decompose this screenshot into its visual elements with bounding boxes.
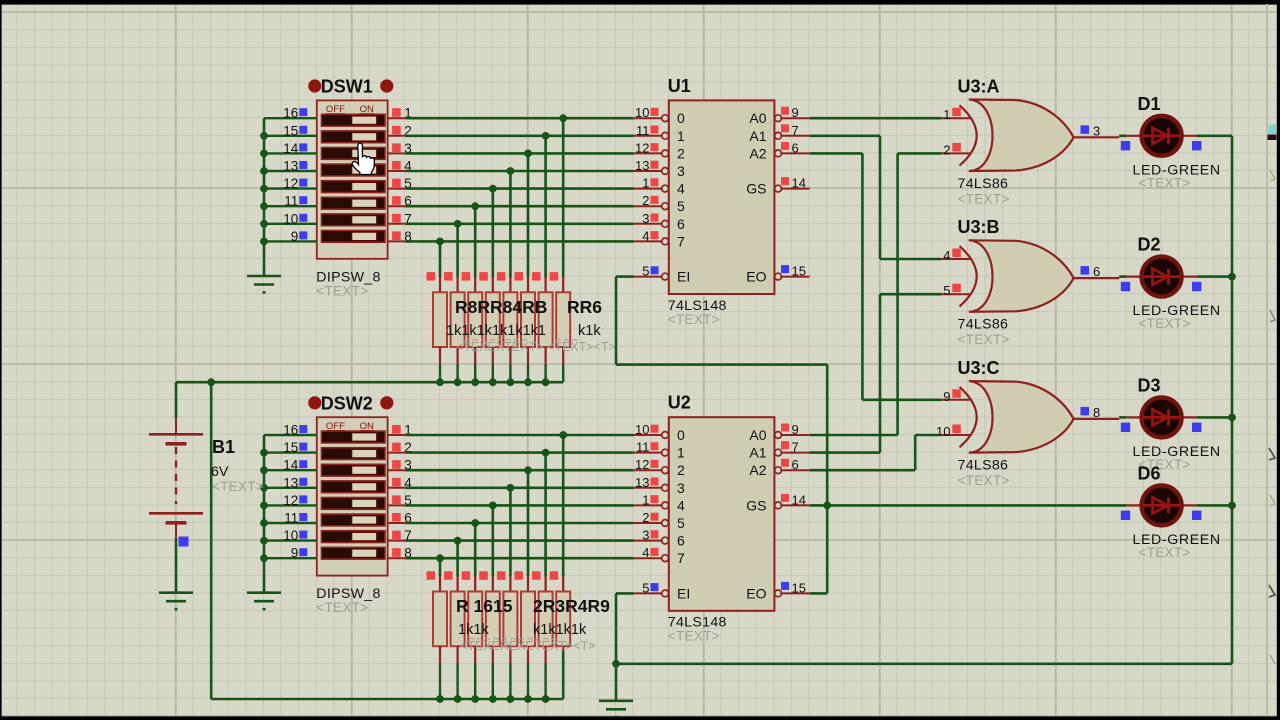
DSW2 title dot left <box>308 396 321 409</box>
DSW1 left pin 9 <box>264 229 317 244</box>
U2 EI pin 5 <box>634 580 691 601</box>
DSW2 right pin 8 <box>388 546 412 561</box>
wire left vertical V+ <box>210 382 213 699</box>
LED D2 <box>1121 257 1202 297</box>
wire DSW2 left bus <box>263 435 266 593</box>
wire EI vertical <box>615 277 618 365</box>
node tap row 3 <box>524 150 532 158</box>
junction R11 bottom <box>471 695 479 703</box>
U1 output pin GS (pin 14) <box>746 176 809 197</box>
U1 EI pin 5 <box>634 264 691 285</box>
resistor R5 <box>497 272 518 382</box>
svg-text:4: 4 <box>642 228 649 243</box>
svg-text:<T͆E͆X͆E͆R͆E͆X͆E͆T͆E͆X͆T><T>: <T͆E͆X͆E͆R͆E͆X͆E͆T͆E͆X͆T><T> <box>460 638 595 653</box>
resistor R4 <box>479 272 500 382</box>
wire tap down to R1 <box>439 241 442 277</box>
wire tap down to bank2 resistor <box>544 453 547 577</box>
U1 input pin 2 (pin 12) <box>634 140 685 161</box>
wire cascade vertical to GS node <box>826 365 829 506</box>
U3:A input 1 label <box>943 107 961 122</box>
svg-text:11: 11 <box>636 440 650 455</box>
wire DSW2 pin7 to U2 input 6 <box>405 539 633 542</box>
LED D3 <box>1121 397 1202 437</box>
U1 output pin A2 (pin 6) <box>749 140 809 161</box>
U1 output pin A0 (pin 9) <box>749 105 809 126</box>
video letterbox top <box>0 0 1280 5</box>
resistor R11 <box>462 571 483 699</box>
DIP switch DSW1 body <box>317 100 388 258</box>
DSW1 left pin 14 <box>264 141 317 156</box>
junction D2 cathode <box>1228 273 1236 281</box>
wire DSW1 pin4 to U1 input 3 <box>405 170 633 173</box>
DSW2 left pin 15 <box>264 440 317 455</box>
svg-text:4: 4 <box>943 248 950 263</box>
svg-text:6: 6 <box>792 457 799 472</box>
svg-text:12: 12 <box>635 140 649 155</box>
wire DSW1 pin8 to U1 input 7 <box>405 240 633 243</box>
svg-text:6V: 6V <box>211 464 229 480</box>
svg-text:6: 6 <box>677 533 685 549</box>
encoder U1 74LS148 body <box>669 100 775 294</box>
svg-text:1k1k: 1k1k <box>458 622 489 638</box>
svg-text:2: 2 <box>642 510 649 525</box>
wire D3 cathode to rail <box>1197 416 1232 419</box>
U1 input pin 1 (pin 11) <box>634 123 685 144</box>
junction EI ground node <box>612 660 620 668</box>
video letterbox bottom <box>0 716 1280 720</box>
svg-text:GS: GS <box>746 181 766 197</box>
svg-text:6: 6 <box>677 216 685 232</box>
U2 output pin A0 (pin 9) <box>749 422 809 443</box>
wire DSW1 pin5 to U1 input 4 <box>405 187 633 190</box>
svg-text:GS: GS <box>746 497 766 513</box>
resistor bank2 labels R9-R16 <box>456 596 610 616</box>
wire tap down to R3 <box>474 206 477 277</box>
DSW1 left pin 11 <box>264 194 317 209</box>
svg-text:EO: EO <box>746 269 766 285</box>
ground U2.EI <box>599 701 633 718</box>
svg-text:D3: D3 <box>1138 375 1161 395</box>
XOR gate U3:A body <box>969 100 1074 172</box>
XOR gate U3:C body <box>969 381 1074 453</box>
DSW1 right pin 4 <box>388 159 413 174</box>
node tap row 5 <box>489 185 497 193</box>
wire DSW2 pin6 to U2 input 5 <box>405 522 633 525</box>
svg-text:3: 3 <box>677 480 685 496</box>
svg-text:14: 14 <box>283 458 299 473</box>
svg-text:7: 7 <box>792 123 799 138</box>
node tap2 row 1 <box>559 431 567 439</box>
DSW1 switch 4 slot <box>322 164 386 176</box>
svg-text:2R3R4R9: 2R3R4R9 <box>533 596 610 616</box>
wire tap down to R4 <box>491 189 494 278</box>
DSW1 right pin 3 <box>388 141 412 156</box>
DSW2 switch 3 slot <box>322 464 386 476</box>
junction DSW2 bus row 2 <box>260 449 268 457</box>
U1 input pin 3 (pin 13) <box>634 158 685 179</box>
junction DSW2 bus row 4 <box>260 484 268 492</box>
svg-text:3: 3 <box>1093 123 1100 138</box>
svg-text:<TEXT>: <TEXT> <box>1139 545 1191 560</box>
wire U1.A0 to U3:A.1 <box>810 117 942 120</box>
svg-text:5: 5 <box>943 283 950 298</box>
wire U2.A2 to U3:C.10 <box>915 434 941 437</box>
wire tap down to bank2 resistor <box>562 435 565 576</box>
XOR gate U3:B input stubs <box>942 259 971 294</box>
svg-text:10: 10 <box>283 211 298 226</box>
U2 output pin GS (pin 14) <box>746 492 809 513</box>
U3:C output 8 label <box>1081 405 1101 420</box>
svg-text:9: 9 <box>792 422 799 437</box>
junction DSW1 bus row 2 <box>260 132 268 140</box>
wire tap down to bank2 resistor <box>509 488 512 577</box>
DSW2 switch 8 slot <box>322 547 386 559</box>
svg-text:1: 1 <box>943 107 950 122</box>
svg-text:5: 5 <box>642 264 649 279</box>
wire D2 cathode to rail <box>1197 275 1232 278</box>
svg-text:<TEXT>: <TEXT> <box>212 479 264 494</box>
svg-text:4: 4 <box>677 497 685 513</box>
node tap row 1 <box>559 114 567 122</box>
node tap row 4 <box>507 167 515 175</box>
wire DSW2 pin2 to U2 input 1 <box>405 451 633 454</box>
svg-text:EI: EI <box>677 585 690 601</box>
DSW1 switch 1 slot <box>322 114 386 126</box>
wire U1.EI stub <box>616 275 634 278</box>
wire bus to battery + <box>175 382 178 418</box>
junction R13 bottom <box>507 695 515 703</box>
wire DSW1 pin3 to U1 input 2 <box>405 152 633 155</box>
svg-text:7: 7 <box>677 233 685 249</box>
U2 input pin 2 (pin 12) <box>634 457 685 478</box>
ground DSW1 <box>247 276 281 293</box>
node tap2 row 5 <box>489 502 497 510</box>
wire bank2 R16 bottom riser <box>562 652 565 699</box>
wire cathode rail vertical <box>1231 136 1234 664</box>
svg-text:13: 13 <box>635 475 649 490</box>
wire U1.A2 vertical <box>861 153 864 399</box>
wire DSW2 pin1 to U2 input 0 <box>405 434 633 437</box>
U1 input pin 6 (pin 3) <box>634 211 685 232</box>
junction DSW1 bus row 4 <box>260 167 268 175</box>
wire DSW1 pin6 to U1 input 5 <box>405 205 633 208</box>
wire U2.A0 horizontal <box>810 434 898 437</box>
junction DSW1 bus row 6 <box>260 202 268 210</box>
svg-text:6: 6 <box>792 140 799 155</box>
svg-text:U3:A: U3:A <box>958 76 1000 96</box>
svg-text:11: 11 <box>284 511 298 526</box>
wire DSW2 pin8 to U2 input 7 <box>405 557 633 560</box>
U3:A output 3 label <box>1081 123 1101 138</box>
wire tap down to bank2 resistor <box>491 505 494 576</box>
junction DSW1 bus row 8 <box>260 238 268 246</box>
svg-text:<TEXT>: <TEXT> <box>668 629 720 644</box>
DSW1 left pin 12 <box>264 176 317 191</box>
U1 input pin 0 (pin 10) <box>634 105 685 126</box>
wire U1.A2 horizontal <box>810 152 863 155</box>
wire ground bus to LED cathode rail <box>616 662 1232 665</box>
wire tap down to R8 <box>562 118 565 277</box>
junction DSW2 bus row 7 <box>260 537 268 545</box>
U3:C input 10 label <box>936 424 961 439</box>
DSW1 left pin 10 <box>264 211 317 226</box>
svg-text:9: 9 <box>943 389 950 404</box>
XOR gate U3:B front arc <box>960 246 977 306</box>
svg-text:<TEXT>: <TEXT> <box>316 283 368 298</box>
DSW1 right pin 1 <box>388 106 412 121</box>
U2 output pin EO (pin 15) <box>746 580 809 601</box>
svg-text:<TEXT>: <TEXT> <box>958 473 1010 488</box>
svg-text:<T͆E͆X͆E͆X͆T͆E͆X͆T> <T͆E͆X͆T><: <T͆E͆X͆E͆X͆T͆E͆X͆T> <T͆E͆X͆T><T> <box>456 339 616 354</box>
wire DSW1 pin1 to U1 input 0 <box>405 117 633 120</box>
DSW1 title dot right <box>380 79 393 92</box>
DSW2 right pin 1 <box>388 423 412 438</box>
resistor bank1 labels R1-R8 <box>455 297 602 317</box>
svg-text:14: 14 <box>792 176 806 191</box>
junction R6 bottom <box>524 378 532 386</box>
svg-text:11: 11 <box>636 123 650 138</box>
svg-text:U1: U1 <box>668 76 691 96</box>
svg-text:R 1615: R 1615 <box>456 596 513 616</box>
XOR gate U3:B output stub <box>1074 277 1120 279</box>
LED D1 <box>1121 116 1202 156</box>
svg-text:5: 5 <box>642 580 649 595</box>
node tap2 row 3 <box>524 466 532 474</box>
wire DSW1 left bus <box>263 118 266 276</box>
svg-text:2: 2 <box>677 462 685 478</box>
junction DSW1 bus row 3 <box>260 150 268 158</box>
junction R9 bottom <box>436 695 444 703</box>
svg-text:DSW1: DSW1 <box>321 77 373 97</box>
svg-text:<TEXT>: <TEXT> <box>668 312 720 327</box>
video edge left <box>0 0 2 720</box>
DSW1 switch 7 slot <box>322 214 386 226</box>
wire V+ bus lower <box>211 698 563 701</box>
resistor R12 <box>479 571 500 699</box>
wire U2.A1 horizontal <box>810 451 880 454</box>
svg-text:0: 0 <box>677 427 685 443</box>
svg-text:3: 3 <box>642 211 649 226</box>
wire U1.A2 to U3:C.9 <box>862 398 941 401</box>
svg-text:15: 15 <box>792 264 806 279</box>
svg-text:11: 11 <box>284 194 298 209</box>
resistor R1 <box>427 272 448 382</box>
U2 input pin 6 (pin 3) <box>634 528 685 549</box>
DSW2 switch 6 slot <box>322 514 386 526</box>
wire U1.A1 horizontal <box>810 135 880 138</box>
DSW2 right pin 4 <box>388 475 413 490</box>
junction R15 bottom <box>542 695 550 703</box>
svg-text:12: 12 <box>635 457 649 472</box>
DSW2 left pin 12 <box>264 493 317 508</box>
wire GS node to D6 <box>827 504 1126 507</box>
svg-text:B1: B1 <box>212 437 235 457</box>
svg-text:1: 1 <box>677 128 685 144</box>
svg-text:2: 2 <box>943 142 950 157</box>
resistor R10 <box>444 571 465 699</box>
svg-text:A1: A1 <box>749 128 766 144</box>
resistor R13 <box>497 571 518 699</box>
U2 input pin 0 (pin 10) <box>634 422 685 443</box>
DSW1 switch 3 slot <box>322 148 386 160</box>
svg-text:R8RR84RB: R8RR84RB <box>455 297 547 317</box>
svg-text:16: 16 <box>283 106 298 121</box>
wire U2.A2 vertical <box>914 435 917 470</box>
svg-text:<TEXT>: <TEXT> <box>958 332 1010 347</box>
svg-text:16: 16 <box>283 423 298 438</box>
svg-text:14: 14 <box>283 141 299 156</box>
DSW1 title dot left <box>308 79 321 92</box>
wire U1.A1 to U3:B.4 <box>880 258 942 261</box>
wire DSW2 pin5 to U2 input 4 <box>405 504 633 507</box>
svg-text:74LS86: 74LS86 <box>958 176 1009 192</box>
wire U2.A2 horizontal <box>810 469 916 472</box>
svg-text:4: 4 <box>642 545 649 560</box>
node tap2 row 8 <box>436 554 444 562</box>
svg-text:1: 1 <box>642 492 649 507</box>
svg-text:D6: D6 <box>1138 463 1161 483</box>
XOR gate U3:C output stub <box>1074 418 1120 420</box>
node tap2 row 7 <box>454 537 462 545</box>
DSW2 left pin 11 <box>264 511 317 526</box>
U2 input pin 3 (pin 13) <box>634 475 685 496</box>
node tap2 row 2 <box>542 449 550 457</box>
wire DSW2 pin3 to U2 input 2 <box>405 469 633 472</box>
wire U2.A0 to U3:A.2 <box>898 152 942 155</box>
svg-text:1: 1 <box>677 445 685 461</box>
svg-text:13: 13 <box>283 159 298 174</box>
DSW1 left pin 15 <box>264 123 317 138</box>
wire DSW1 pin2 to U1 input 1 <box>405 135 633 138</box>
svg-text:A1: A1 <box>749 445 766 461</box>
DIP switch DSW2 body <box>317 417 388 575</box>
junction DSW1 bus row 7 <box>260 220 268 228</box>
cursor artifact 1 <box>1268 125 1277 141</box>
DSW1 switch 2 slot <box>322 131 386 143</box>
svg-text:5: 5 <box>677 198 685 214</box>
junction R14 bottom <box>524 695 532 703</box>
wire down to ground <box>615 664 618 701</box>
wire tap down to bank2 resistor <box>527 470 530 576</box>
DSW2 title dot right <box>380 396 393 409</box>
svg-text:3: 3 <box>677 163 685 179</box>
wire U1.A1 vertical <box>879 136 882 259</box>
svg-text:7: 7 <box>792 440 799 455</box>
encoder U2 74LS148 body <box>669 417 775 611</box>
wire U2.A0 vertical <box>896 153 899 435</box>
U2 input pin 1 (pin 11) <box>634 440 685 461</box>
resistor R16 <box>550 571 571 699</box>
XOR gate U3:C front arc <box>960 387 977 447</box>
U1 input pin 4 (pin 1) <box>634 176 685 197</box>
DSW2 switch 7 slot <box>322 531 386 543</box>
U3:B output 6 label <box>1081 264 1101 279</box>
DSW2 right pin 3 <box>388 458 412 473</box>
DSW2 right pin 5 <box>388 493 412 508</box>
DSW1 switch 5 slot <box>322 181 386 193</box>
DSW1 left pin 13 <box>264 159 317 174</box>
svg-text:9: 9 <box>291 546 299 561</box>
ground battery <box>159 593 193 610</box>
junction R2 bottom <box>454 378 462 386</box>
DSW2 left pin 16 <box>264 423 317 438</box>
svg-text:6: 6 <box>1093 264 1100 279</box>
svg-text:RR6: RR6 <box>567 297 602 317</box>
wire DSW1 pin7 to U1 input 6 <box>405 223 633 226</box>
U3:A input 2 label <box>943 142 961 157</box>
svg-text:10: 10 <box>936 424 950 439</box>
junction R3 bottom <box>471 378 479 386</box>
U1 input pin 7 (pin 4) <box>634 228 685 249</box>
resistor R14 <box>515 571 536 699</box>
node tap row 6 <box>471 202 479 210</box>
svg-text:10: 10 <box>283 528 298 543</box>
resistor R7 <box>532 272 553 382</box>
wire tap down to bank2 resistor <box>439 558 442 576</box>
U2 input pin 5 (pin 2) <box>634 510 685 531</box>
svg-text:EI: EI <box>677 269 690 285</box>
svg-text:9: 9 <box>792 105 799 120</box>
junction R4 bottom <box>489 378 497 386</box>
resistor R9 <box>427 571 448 699</box>
svg-text:A0: A0 <box>749 110 766 126</box>
U3:B input 4 label <box>943 248 961 263</box>
U1 input pin 5 (pin 2) <box>634 193 685 214</box>
svg-text:10: 10 <box>635 105 649 120</box>
svg-text:A2: A2 <box>749 462 766 478</box>
svg-text:8: 8 <box>1093 405 1100 420</box>
wire tap down to R2 <box>456 224 459 277</box>
resistor R3 <box>462 272 483 382</box>
wire tap down to R7 <box>544 136 547 277</box>
node tap2 row 6 <box>471 519 479 527</box>
junction GS node <box>823 502 831 510</box>
DSW2 left pin 14 <box>264 458 317 473</box>
junction DSW2 bus row 6 <box>260 519 268 527</box>
DSW2 left pin 10 <box>264 528 317 543</box>
wire to D2 anode <box>1119 275 1126 278</box>
svg-text:14: 14 <box>792 492 806 507</box>
wire D1 cathode to rail <box>1197 135 1232 138</box>
svg-text:15: 15 <box>283 123 298 138</box>
DSW1 right pin 6 <box>388 194 412 209</box>
wire tap down to R6 <box>527 153 530 277</box>
svg-text:<TEXT>: <TEXT> <box>1139 175 1191 190</box>
DSW2 left pin 13 <box>264 475 317 490</box>
junction R12 bottom <box>489 695 497 703</box>
wire V+ bus upper <box>176 381 563 384</box>
svg-text:9: 9 <box>291 229 299 244</box>
U2 output pin A1 (pin 7) <box>749 440 809 461</box>
XOR gate U3:A input stubs <box>942 118 971 153</box>
junction R5 bottom <box>507 378 515 386</box>
video edge right bar <box>1277 0 1280 720</box>
junction DSW1 bus row 5 <box>260 185 268 193</box>
junction DSW2 bus row 3 <box>260 466 268 474</box>
U2 input pin 7 (pin 4) <box>634 545 685 566</box>
junction DSW2 bus row 8 <box>260 554 268 562</box>
wire U2.A1 vertical <box>879 294 882 452</box>
junction left vertical <box>207 378 215 386</box>
junction DSW2 bus row 5 <box>260 502 268 510</box>
DSW2 switch 4 slot <box>322 481 386 493</box>
svg-text:A0: A0 <box>749 427 766 443</box>
XOR gate U3:A front arc <box>960 105 977 165</box>
node tap row 2 <box>542 132 550 140</box>
U2 input pin 4 (pin 1) <box>634 492 685 513</box>
ground DSW2 <box>247 593 281 610</box>
DSW2 switch 1 slot <box>322 431 386 443</box>
